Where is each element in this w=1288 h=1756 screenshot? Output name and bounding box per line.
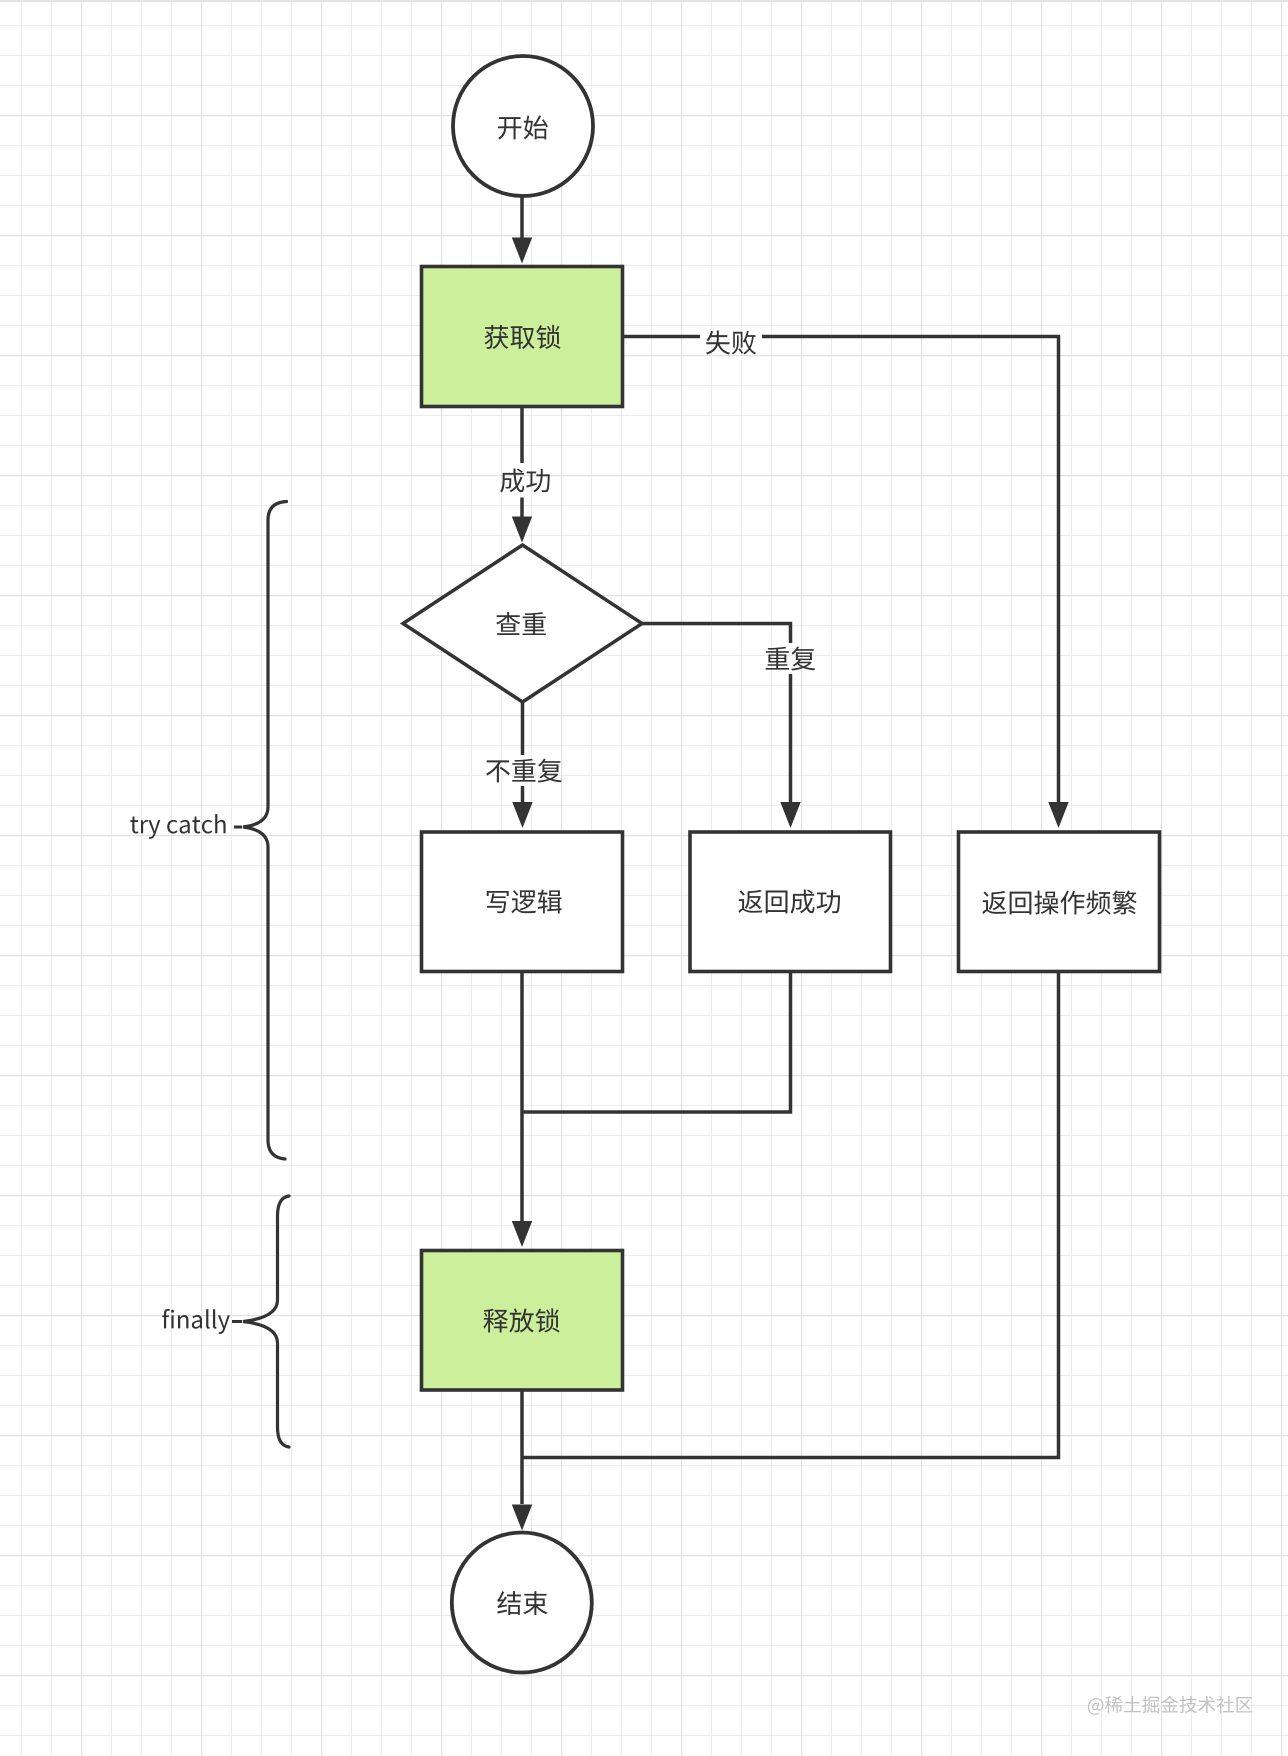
brace finally	[243, 1196, 289, 1447]
wire 返回操作频繁 join to main line	[522, 971, 1059, 1458]
label 失败	[706, 331, 756, 355]
brace label finally	[162, 1309, 242, 1334]
arrowhead into 结束	[512, 1505, 532, 1531]
watermark @稀土掘金技术社区	[1088, 1696, 1252, 1715]
wire 获取锁 to 返回操作频繁 (失败 branch)	[624, 337, 1059, 805]
arrowhead into 释放锁	[512, 1221, 532, 1247]
wire 写逻辑 to 释放锁	[520, 971, 524, 1221]
label 成功	[500, 468, 550, 492]
wire 返回成功 join to main line	[522, 971, 791, 1112]
wire 释放锁 to 结束	[520, 1390, 524, 1504]
arrowhead into 返回成功	[780, 802, 800, 828]
arrowhead into 获取锁	[512, 238, 532, 264]
node 结束 (end circle)	[452, 1533, 592, 1673]
node 查重 (decision diamond)	[403, 545, 642, 702]
brace try catch	[243, 502, 287, 1160]
label 重复	[766, 647, 816, 671]
wire 查重 to 写逻辑 (不重复 branch)	[521, 703, 525, 804]
arrowhead into 返回操作频繁	[1048, 802, 1068, 828]
wire 获取锁 to 查重 (成功 branch)	[520, 408, 524, 519]
node 返回操作频繁 (process box)	[959, 832, 1160, 972]
wire 开始 to 获取锁	[520, 196, 524, 240]
arrowhead into 写逻辑	[512, 802, 532, 828]
brace label try catch	[130, 814, 242, 839]
node 开始 (start circle)	[453, 56, 593, 196]
node 写逻辑 (process box)	[422, 832, 623, 972]
node 返回成功 (process box)	[690, 832, 891, 972]
node 获取锁 (green process box)	[422, 267, 623, 407]
arrowhead into 查重	[512, 517, 532, 543]
label 不重复	[486, 759, 562, 783]
node 释放锁 (green process box)	[422, 1251, 623, 1391]
wire 查重 to 返回成功 (重复 branch)	[642, 624, 791, 805]
